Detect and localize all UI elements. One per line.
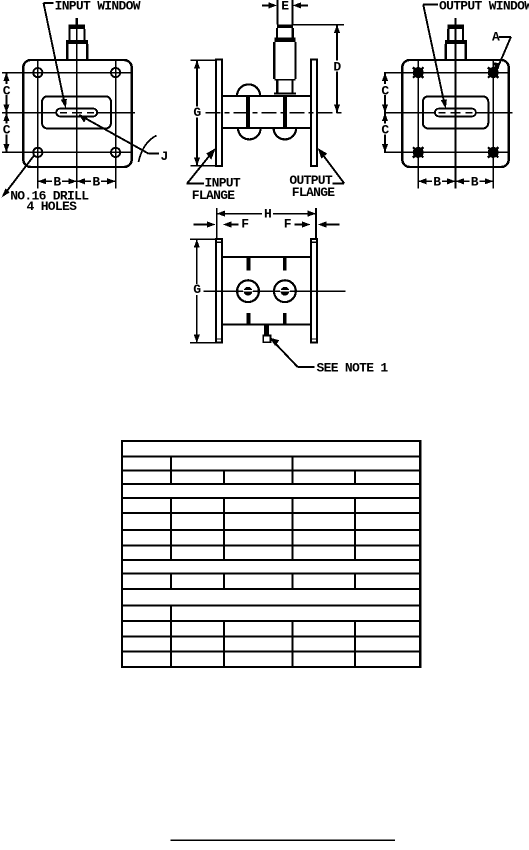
F dim left outside arrow [194, 224, 208, 226]
corner hole bottom-right [111, 148, 120, 157]
G dim extension top (middle view) [191, 59, 217, 61]
leader line to output window [423, 5, 444, 105]
output stub transition bar [445, 40, 467, 44]
hole mark bottom-left [413, 147, 423, 157]
screw tick top-right [283, 257, 287, 271]
input coupling stub pin [75, 18, 77, 29]
table column rules [171, 457, 355, 668]
waveguide body bottom [222, 127, 311, 129]
tuning screw left [246, 96, 250, 128]
svg-text:INPUT WINDOW: INPUT WINDOW [55, 0, 141, 13]
hole row line bottom [2, 151, 132, 153]
bottom dome left [238, 128, 261, 139]
hole row line top [2, 72, 132, 74]
waveguide body top [222, 95, 311, 97]
corner hole top-right [111, 68, 120, 77]
H dim arrowheads [217, 211, 225, 217]
H dimension line [217, 213, 316, 215]
drill leader arrowhead [2, 189, 10, 198]
centre line (dash-dot) [206, 112, 345, 114]
svg-text:B: B [53, 174, 61, 189]
svg-text:C: C [3, 123, 11, 138]
svg-text:FLANGE: FLANGE [192, 188, 236, 203]
horizontal centre line [2, 112, 135, 114]
letter B right (output) [469, 176, 479, 187]
letter G (middle view) [192, 106, 202, 117]
J leader arrowhead [79, 114, 88, 122]
input stub narrow section [70, 29, 85, 40]
svg-text:E: E [281, 0, 289, 13]
C dim arrowheads [3, 73, 9, 81]
letter H [262, 208, 273, 219]
G dim arrowheads (middle view) [194, 60, 200, 68]
screw head right inner [281, 287, 290, 296]
C dim arrowheads (output) [382, 73, 388, 81]
screw tick bottom-right [283, 313, 287, 325]
table horizontal rules [122, 457, 420, 652]
A leader line [498, 37, 512, 68]
antenna lower section sides [277, 81, 292, 93]
output stub wide section [446, 44, 466, 60]
svg-text:H: H [264, 207, 271, 222]
output flange inner raised boss [423, 96, 489, 128]
J leader arc mark [139, 136, 157, 163]
antenna joint band 2 [274, 38, 295, 42]
C dimension line [5, 73, 7, 153]
horizontal centre line (output) [384, 112, 513, 114]
screw tick bottom-left [247, 313, 251, 325]
table outer border [122, 441, 420, 667]
leader to drill holes [5, 155, 35, 194]
input flange plate [23, 60, 131, 167]
hole column line left [37, 60, 39, 189]
letter C upper [1, 84, 11, 95]
leader tick for OUTPUT WINDOW [423, 4, 438, 6]
svg-text:B: B [92, 174, 100, 189]
svg-text:C: C [3, 83, 11, 98]
F dim right inside arrow [295, 224, 303, 226]
corner hole top-left [33, 68, 42, 77]
input flange (plan) [216, 239, 222, 343]
svg-text:OUTPUT WINDOW: OUTPUT WINDOW [439, 0, 529, 13]
screw head left outer [237, 280, 259, 302]
svg-text:D: D [333, 60, 341, 75]
J leader tail [149, 153, 160, 155]
B dim arrowheads (output) [418, 178, 426, 184]
svg-text:G: G [193, 105, 201, 120]
SEE NOTE leader arrowhead [270, 338, 280, 346]
svg-text:A: A [492, 30, 500, 45]
output stub cap bar [447, 25, 464, 30]
body bottom line (plan) [222, 323, 311, 325]
output flange plate [402, 60, 508, 167]
hole row line top (output) [384, 72, 509, 74]
C dimension line (output) [384, 73, 386, 153]
H dim extension right [315, 208, 317, 239]
input stub cap bar [69, 25, 86, 30]
leader arrowhead at slot [61, 99, 67, 108]
leader line to input window [44, 3, 65, 103]
body top line (plan) [222, 256, 311, 258]
F dim left inside arrow [231, 224, 239, 226]
svg-text:C: C [381, 83, 389, 98]
svg-text:4 HOLES: 4 HOLES [27, 199, 78, 214]
hole column line right (output) [492, 60, 494, 189]
H dim extension left [216, 208, 218, 239]
antenna joint band 1 [277, 25, 293, 28]
input stub wide section [67, 44, 87, 60]
screw head right outer [274, 280, 296, 302]
output window slot [435, 109, 476, 117]
input flange inner end lines [216, 242, 222, 339]
antenna section 2 sides [277, 28, 293, 38]
antenna main body [274, 42, 295, 79]
letter D [332, 61, 342, 72]
output flange inner end lines [311, 242, 317, 339]
hole mark top-right [488, 67, 498, 77]
INPUT FLANGE leader line [187, 150, 214, 184]
svg-text:F: F [241, 217, 249, 232]
svg-text:C: C [381, 123, 389, 138]
vertical centre line (output) [455, 29, 457, 189]
input stub transition bar [66, 40, 88, 44]
G dim arrowheads (plan) [194, 239, 200, 247]
OUTPUT FLANGE leader foot [333, 182, 345, 184]
INPUT FLANGE leader arrowhead [206, 148, 216, 160]
slot dashed centre segments [60, 112, 94, 114]
screw head left inner [244, 287, 253, 296]
vertical centre line [76, 29, 78, 189]
screw tick top-left [247, 257, 251, 271]
svg-text:J: J [161, 149, 168, 164]
hole column line right [115, 60, 117, 189]
B dimension line (output) [418, 180, 493, 182]
leader tick for INPUT WINDOW [44, 2, 54, 4]
letter C lower [1, 124, 11, 135]
bottom dome right [274, 128, 297, 139]
A leader tail [499, 36, 511, 38]
E dimension left arrow [262, 4, 272, 6]
G dimension line (middle view) [196, 60, 198, 166]
corner hole bottom-left [33, 148, 42, 157]
D dim extension line top [292, 24, 343, 26]
D dim arrowheads [334, 25, 340, 33]
letter G (plan) [192, 284, 202, 295]
INPUT FLANGE leader foot [187, 183, 205, 185]
output coupling stub pin [454, 18, 456, 29]
SEE NOTE leader tail [298, 366, 315, 368]
footer rule [170, 839, 395, 841]
output flange (plan) [311, 239, 317, 343]
svg-text:SEE NOTE 1: SEE NOTE 1 [317, 361, 389, 376]
slot dashed centre segments (output) [439, 112, 473, 114]
F dim right outside arrow [326, 224, 340, 226]
A leader arrowhead [494, 62, 500, 72]
G dimension line (plan) [196, 239, 198, 343]
antenna base plate [274, 92, 296, 94]
G dim extension bottom (middle view) [191, 165, 217, 167]
svg-text:B: B [471, 174, 479, 189]
svg-text:F: F [284, 217, 292, 232]
leader arrowhead at output slot [441, 99, 447, 108]
drilled hole marks (filled) [413, 67, 498, 157]
hole mark bottom-right [488, 147, 498, 157]
svg-text:B: B [433, 174, 441, 189]
top dome [237, 84, 260, 96]
centre line (plan) [204, 290, 346, 292]
E dimension right arrow [298, 4, 308, 6]
B dim arrowheads [38, 178, 46, 184]
G dim extension bottom (plan) [190, 342, 216, 344]
input window slot [56, 109, 97, 117]
letter B left [52, 176, 62, 187]
input flange inner raised boss [42, 96, 111, 128]
input flange (side) [216, 60, 222, 166]
svg-text:FLANGE: FLANGE [292, 185, 336, 200]
note tab open part [263, 336, 270, 343]
tuning screw right [283, 96, 287, 128]
G dim extension top (plan) [190, 238, 216, 240]
letter C lower (output) [380, 124, 390, 135]
output flange (side) [311, 60, 317, 166]
letter B right [91, 176, 101, 187]
antenna tube sides [277, 0, 292, 25]
svg-text:G: G [193, 282, 201, 297]
hole column line left (output) [417, 60, 419, 189]
letter C upper (output) [380, 84, 390, 95]
letter B left (output) [432, 176, 442, 187]
antenna body bottom edge [274, 79, 295, 81]
OUTPUT FLANGE leader line [319, 150, 344, 184]
hole mark top-left [413, 67, 423, 77]
note tab solid part [264, 326, 269, 336]
D dimension line [336, 25, 338, 113]
OUTPUT FLANGE leader arrowhead [318, 148, 328, 158]
B dimension line [38, 180, 116, 182]
output stub narrow section [448, 29, 463, 40]
hole row line bottom (output) [384, 151, 509, 153]
J leader line [80, 115, 149, 154]
SEE NOTE leader line [272, 340, 298, 367]
